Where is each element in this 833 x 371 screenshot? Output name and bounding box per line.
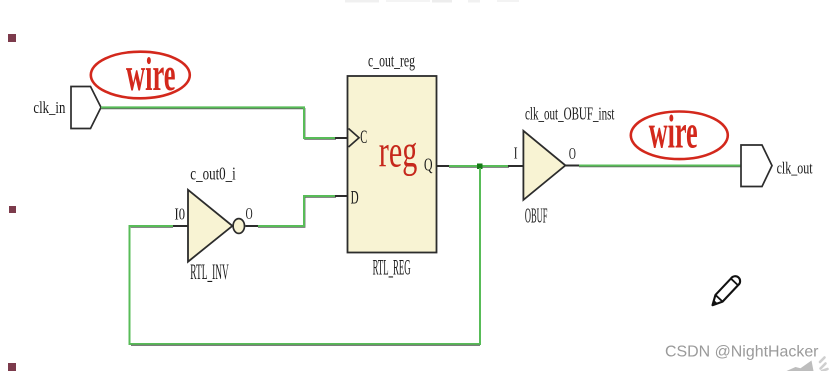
svg-text:c_out0_i: c_out0_i	[190, 164, 236, 184]
svg-text:c_out_reg: c_out_reg	[368, 51, 415, 71]
bullet square 1	[8, 34, 16, 42]
flip-flop c_out_reg	[348, 51, 437, 280]
svg-text:O: O	[246, 204, 253, 223]
svg-text:RTL_REG: RTL_REG	[373, 255, 411, 280]
svg-text:wire: wire	[126, 48, 176, 101]
clock triangle pin C	[349, 129, 360, 148]
wire inverter input stub	[172, 225, 188, 227]
svg-text:D: D	[351, 187, 359, 208]
svg-text:CSDN @NightHacker: CSDN @NightHacker	[665, 343, 819, 360]
bullet square 3	[8, 363, 16, 371]
output port clk_out	[741, 145, 813, 187]
wire clk_in to C	[101, 107, 348, 139]
wire Q output to OBUF	[437, 166, 524, 167]
svg-text:O: O	[569, 144, 576, 163]
svg-text:clk_out_OBUF_inst: clk_out_OBUF_inst	[525, 103, 615, 123]
junction node	[477, 164, 483, 170]
wire OBUF output to clk_out port	[566, 166, 742, 167]
svg-text:C: C	[360, 127, 367, 148]
svg-text:wire: wire	[649, 105, 698, 158]
annotation ellipse wire (left)	[91, 48, 190, 101]
bullet square 2	[9, 206, 16, 213]
svg-text:clk_out: clk_out	[777, 158, 813, 177]
input port clk_in	[33, 87, 101, 129]
svg-text:I: I	[514, 144, 518, 163]
pencil cursor icon	[709, 274, 742, 309]
svg-text:I0: I0	[175, 205, 186, 224]
toolbar remnant top	[345, 0, 519, 3]
annotation ellipse wire (right)	[631, 105, 728, 159]
wire inverter output to D	[245, 196, 348, 227]
watermark logo	[787, 358, 828, 371]
svg-text:OBUF: OBUF	[525, 204, 548, 228]
feedback wire	[130, 168, 481, 345]
svg-text:RTL_INV: RTL_INV	[190, 259, 229, 284]
svg-text:clk_in: clk_in	[33, 98, 65, 117]
buffer OBUF clk_out_OBUF_inst	[514, 103, 615, 227]
inverter c_out0_i	[175, 164, 253, 284]
svg-text:Q: Q	[424, 155, 433, 175]
svg-text:reg: reg	[379, 125, 418, 176]
